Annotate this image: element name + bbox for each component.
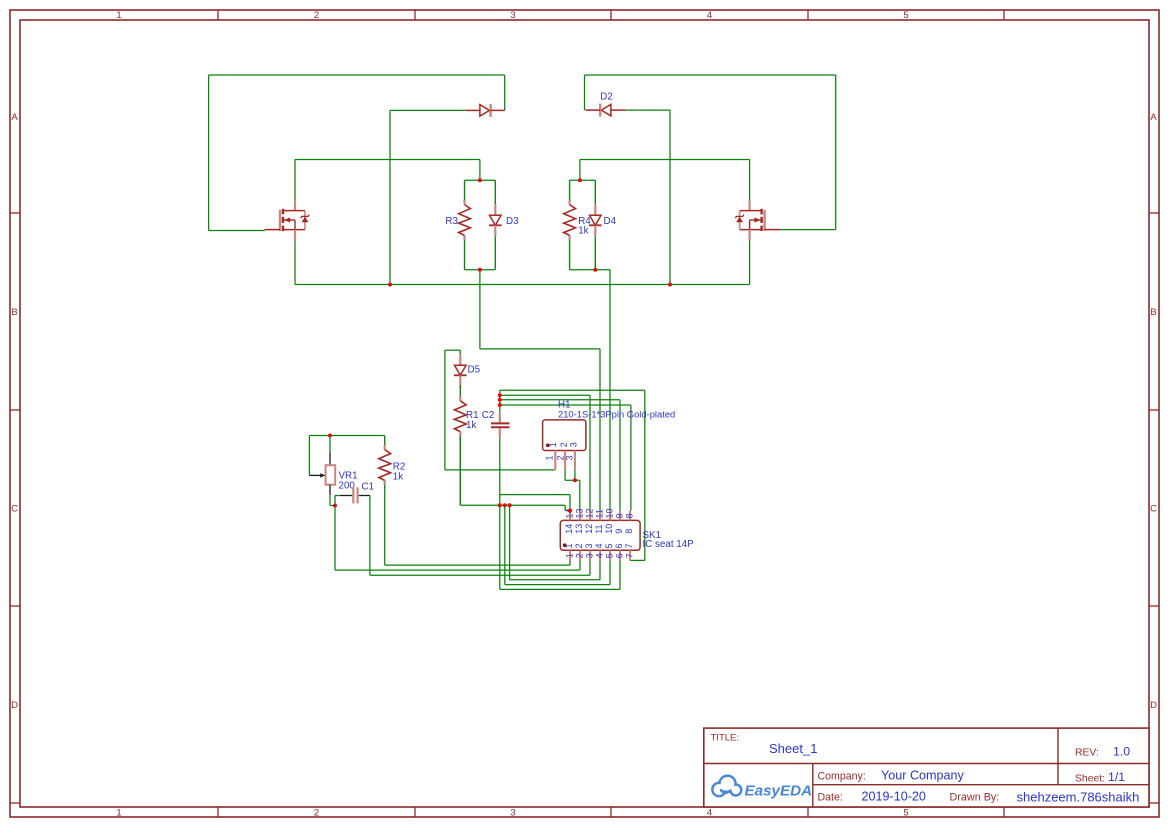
- node R3D3 bottom: [478, 268, 482, 272]
- ruler row letters right: [1150, 112, 1157, 711]
- capacitor C1: [340, 482, 374, 504]
- svg-text:5: 5: [604, 543, 614, 548]
- svg-text:3: 3: [564, 455, 574, 460]
- svg-text:3: 3: [584, 543, 594, 548]
- wire left drain to R3/D3 top: [295, 160, 480, 201]
- wire R3/D3 bottom to SK1 pin 11: [480, 270, 600, 511]
- svg-text:B: B: [11, 307, 17, 318]
- transistor Q left (NMOS): [265, 200, 310, 240]
- svg-text:Sheet:: Sheet:: [1075, 774, 1105, 785]
- socket SK1: [560, 508, 694, 560]
- wire H1 pins 2,3 to SK1 pin13: [565, 470, 580, 511]
- svg-text:8: 8: [624, 513, 634, 518]
- wire R3/D3 bottom bar: [465, 269, 496, 271]
- wire left gate loop (top): [209, 75, 505, 231]
- ruler column numbers bottom: [116, 808, 908, 819]
- svg-text:B: B: [1150, 307, 1156, 318]
- wire R3/D3 top bar: [465, 179, 496, 181]
- svg-text:10: 10: [604, 524, 614, 534]
- ruler ticks top/bottom: [218, 10, 1004, 817]
- svg-text:2: 2: [314, 808, 319, 819]
- transistor Q right (NMOS mirrored): [735, 200, 780, 240]
- svg-text:Date:: Date:: [818, 792, 843, 804]
- ruler ticks left/right: [10, 213, 1159, 803]
- title block frame: [704, 728, 1149, 807]
- svg-text:3: 3: [569, 442, 579, 447]
- wire D2 to bus: [625, 110, 670, 284]
- node R4D4 top: [578, 178, 582, 182]
- svg-text:2019-10-20: 2019-10-20: [862, 790, 926, 804]
- diode D5: [454, 350, 481, 389]
- svg-text:2: 2: [559, 442, 569, 447]
- svg-text:D2: D2: [600, 92, 613, 103]
- svg-text:12: 12: [584, 524, 594, 534]
- svg-text:C: C: [1150, 504, 1157, 515]
- node H1 pins23: [573, 478, 577, 482]
- wire diode D1 feed: [390, 110, 465, 284]
- svg-text:6: 6: [614, 543, 624, 548]
- diode D3: [489, 180, 519, 270]
- node SK1 pin14: [568, 509, 572, 513]
- node C2 tee1: [498, 393, 502, 397]
- node R4D4 bottom: [593, 268, 597, 272]
- resistor R4: [564, 180, 592, 270]
- svg-text:9: 9: [614, 513, 624, 518]
- diode D1 (top left, unnamed): [465, 104, 504, 117]
- svg-text:10: 10: [604, 508, 614, 518]
- node bus right: [668, 283, 672, 287]
- svg-text:IC seat 14P: IC seat 14P: [643, 539, 695, 550]
- resistor R2: [379, 436, 406, 489]
- svg-text:2: 2: [574, 543, 584, 548]
- wire right drain to R4/D4 top: [580, 160, 750, 201]
- svg-text:1: 1: [116, 10, 121, 21]
- wire VR1 bottom / C1 left joint: [330, 495, 340, 505]
- svg-text:3: 3: [510, 10, 515, 21]
- svg-text:R3: R3: [445, 216, 458, 227]
- resistor R3: [445, 180, 470, 270]
- svg-text:7: 7: [624, 543, 634, 548]
- svg-text:TITLE:: TITLE:: [711, 733, 740, 744]
- wire VR1/R2 top: [309, 436, 384, 476]
- svg-text:11: 11: [594, 524, 604, 533]
- node pinbus2: [503, 503, 507, 507]
- svg-text:1: 1: [564, 543, 574, 548]
- node bus left: [388, 283, 392, 287]
- node VR1 top: [328, 434, 332, 438]
- svg-text:D: D: [11, 700, 18, 711]
- svg-text:5: 5: [903, 10, 908, 21]
- svg-text:4: 4: [707, 10, 712, 21]
- connector H1: [543, 399, 676, 470]
- svg-text:210-1S-1*3Ppin Gold-plated: 210-1S-1*3Ppin Gold-plated: [558, 408, 675, 419]
- svg-text:14: 14: [564, 524, 574, 534]
- ruler row letters left: [11, 112, 18, 711]
- potentiometer VR1: [309, 452, 357, 495]
- svg-text:9: 9: [614, 529, 624, 534]
- svg-text:8: 8: [624, 529, 634, 534]
- wire SK1 pin3 to C1: [370, 496, 590, 576]
- svg-text:D5: D5: [468, 365, 481, 376]
- wire C2 top lines: [500, 390, 645, 560]
- svg-text:C1: C1: [362, 482, 375, 493]
- svg-text:5: 5: [903, 808, 908, 819]
- svg-text:1.0: 1.0: [1113, 745, 1130, 759]
- wire right gate loop (top): [585, 75, 836, 230]
- svg-text:12: 12: [584, 508, 594, 518]
- svg-text:D4: D4: [604, 216, 617, 227]
- svg-text:Company:: Company:: [818, 771, 866, 783]
- svg-text:7: 7: [624, 553, 634, 558]
- svg-text:13: 13: [574, 524, 584, 534]
- wire SK1 pin2 to VR1: [335, 506, 580, 571]
- svg-text:shehzeem.786shaikh: shehzeem.786shaikh: [1017, 790, 1140, 805]
- node R3D3 top: [478, 178, 482, 182]
- capacitor C2: [482, 410, 510, 438]
- EasyEDA logo: [712, 776, 812, 800]
- svg-text:D3: D3: [506, 216, 519, 227]
- wire source bus: [295, 240, 750, 284]
- wire D5 top / H1 pin1: [445, 350, 555, 470]
- svg-text:4: 4: [594, 553, 604, 558]
- svg-text:13: 13: [574, 508, 584, 518]
- svg-text:1: 1: [548, 442, 558, 447]
- svg-text:4: 4: [707, 808, 712, 819]
- svg-text:C2: C2: [482, 410, 495, 421]
- svg-text:1k: 1k: [466, 420, 476, 431]
- svg-text:REV:: REV:: [1075, 748, 1099, 759]
- wire SK1 pin1 to R2: [385, 488, 570, 565]
- svg-text:5: 5: [604, 553, 614, 558]
- svg-text:1: 1: [545, 455, 555, 460]
- svg-text:11: 11: [594, 509, 604, 518]
- svg-text:A: A: [1150, 112, 1157, 123]
- svg-text:4: 4: [594, 543, 604, 548]
- node pinbus1: [498, 503, 502, 507]
- svg-text:C: C: [11, 504, 18, 515]
- svg-text:Drawn By:: Drawn By:: [950, 792, 1000, 804]
- wire SK1 pins 4,5,6 feeds: [500, 505, 620, 589]
- wire R4/D4 bottom to SK1 pin 10: [609, 270, 611, 511]
- ruler column numbers top: [116, 10, 908, 21]
- svg-text:2: 2: [314, 10, 319, 21]
- node pinbus3: [508, 503, 512, 507]
- wire C2 bottom to SK1 pin14 and bus: [500, 438, 570, 511]
- svg-text:1k: 1k: [393, 472, 403, 483]
- wire R4/D4 top bar: [570, 179, 596, 181]
- svg-text:D: D: [1150, 700, 1157, 711]
- svg-text:1/1: 1/1: [1108, 770, 1125, 784]
- svg-text:A: A: [11, 112, 18, 123]
- svg-text:Your Company: Your Company: [881, 769, 965, 783]
- svg-text:3: 3: [510, 808, 515, 819]
- svg-text:2: 2: [574, 553, 584, 558]
- svg-text:Sheet_1: Sheet_1: [769, 741, 817, 756]
- resistor R1: [454, 385, 478, 505]
- svg-text:EasyEDA: EasyEDA: [745, 783, 813, 800]
- diode D2: [585, 92, 625, 117]
- wire R1 bottom to pin bus: [460, 434, 570, 511]
- svg-text:1: 1: [564, 553, 574, 558]
- node C2 tee3: [498, 403, 502, 407]
- svg-text:3: 3: [584, 553, 594, 558]
- svg-text:1: 1: [116, 808, 121, 819]
- diode D4: [589, 180, 617, 270]
- node C2 tee2: [498, 398, 502, 402]
- svg-text:1k: 1k: [578, 226, 588, 237]
- wire R4/D4 bottom bar: [570, 269, 610, 271]
- svg-text:6: 6: [614, 553, 624, 558]
- node VR1 bottom: [333, 504, 337, 508]
